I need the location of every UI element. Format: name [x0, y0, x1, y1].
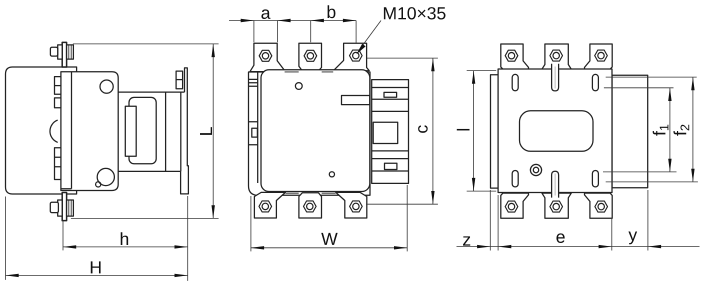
- hole bottom small: [96, 182, 101, 187]
- top terminal bolt: [50, 42, 73, 67]
- rear top lug 3: [585, 44, 613, 69]
- top terminal lug 2: [299, 43, 322, 70]
- dimension H: [6, 197, 188, 280]
- small hole: [530, 164, 541, 175]
- auxiliary block (right side): [372, 80, 409, 184]
- dimension L: [71, 44, 219, 219]
- face marks: [295, 83, 302, 90]
- dimensions z e y baseline: [457, 190, 700, 251]
- base plate: [249, 72, 371, 195]
- left strip: [491, 75, 499, 188]
- dimension e: [556, 233, 611, 248]
- rear bottom lug 2: [542, 193, 571, 218]
- bottom terminal lug 2: [299, 193, 322, 218]
- dimension b: [311, 21, 356, 44]
- hole bottom large: [97, 168, 114, 185]
- top terminal lug 1: [250, 43, 284, 71]
- top clip: [176, 71, 183, 89]
- bottom terminal lug 3: [336, 192, 367, 218]
- rear top lug 1: [501, 44, 529, 69]
- rear bottom lug 3: [585, 193, 613, 218]
- dimension f2: [606, 77, 698, 182]
- label M10x35 with leader: [356, 7, 445, 54]
- dimension c: [366, 58, 438, 204]
- rear body: [498, 64, 612, 198]
- parting line segments bottom: [286, 192, 336, 194]
- mounting slots: [512, 74, 518, 90]
- contact carrier bar: [61, 72, 72, 189]
- central window: [520, 111, 594, 152]
- dimension W: [251, 185, 407, 251]
- rear bottom lug 1: [501, 193, 529, 218]
- terminal blocks lower: [55, 148, 61, 180]
- top key slot: [552, 64, 559, 91]
- dimension a: [229, 21, 356, 43]
- hole top: [100, 80, 113, 93]
- semicircular bump: [50, 120, 58, 142]
- front face body: [249, 70, 370, 193]
- terminal blocks upper: [55, 77, 61, 95]
- bottom terminal bolt: [50, 193, 73, 221]
- parting line segments top: [285, 71, 370, 73]
- coil end cover: [129, 97, 156, 163]
- rear block (right side): [612, 75, 648, 188]
- left strip details: [249, 72, 258, 183]
- dimension f1: [603, 88, 677, 172]
- dimension y: [628, 232, 661, 249]
- dimension h: [63, 196, 188, 281]
- dimension z: [463, 236, 511, 248]
- bottom key slot: [552, 171, 559, 197]
- top terminal lug 3: [333, 43, 369, 70]
- mounting plate assembly: [118, 68, 188, 194]
- bottom terminal lug 1: [254, 192, 285, 218]
- rear top lug 2: [542, 44, 571, 69]
- side view: arc-chamber housing (left body): [6, 67, 77, 194]
- side view: magnet housing (right body): [61, 72, 118, 191]
- dimension l: [467, 71, 497, 192]
